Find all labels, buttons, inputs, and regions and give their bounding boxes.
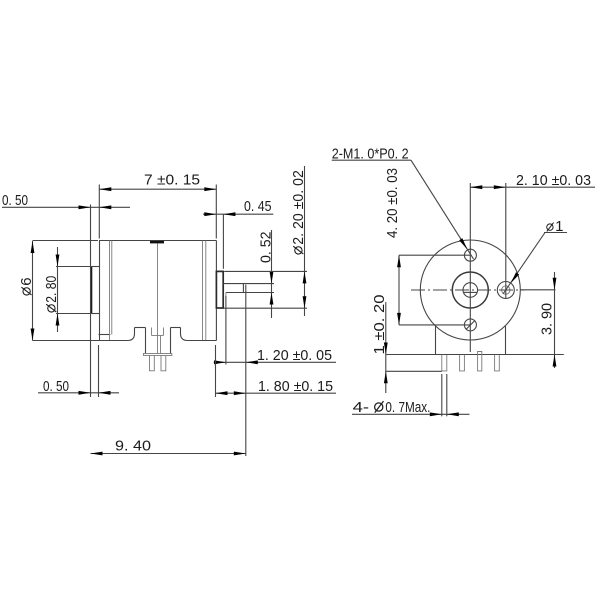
right end-cap face (215, 241, 217, 341)
pilot hole dia 1 (497, 282, 514, 299)
shaft circle (463, 283, 478, 298)
bottom screw hole thread mark (466, 321, 475, 330)
bottom screw hole (464, 319, 476, 331)
bracket right edge (505, 326, 507, 355)
pin left (side view) (150, 356, 155, 371)
block bottom lip (144, 354, 172, 356)
shaft boss (216, 271, 223, 308)
dim 3.90 (539, 303, 556, 335)
pin 4 front (495, 355, 500, 371)
svg-text:0. 50: 0. 50 (2, 192, 28, 209)
dim dia 6 (18, 277, 35, 295)
svg-text:4. 20 ±0. 03: 4. 20 ±0. 03 (384, 168, 401, 238)
bearing boss circle (452, 272, 488, 308)
top weld tab (150, 241, 164, 244)
flange right fillet (181, 328, 188, 341)
label dia 1 (547, 218, 564, 235)
label 4-dia 0.7 Max (353, 399, 431, 416)
cutout ceiling right (171, 327, 181, 329)
svg-text:0. 7Max.: 0. 7Max. (385, 399, 430, 416)
cutout ceiling left (135, 327, 146, 329)
bottom flange right (188, 340, 217, 342)
dim 0.52 (257, 232, 274, 264)
left cap bottom (99, 334, 111, 336)
pin 1 phantom extension (441, 374, 443, 416)
pin 3 front (478, 352, 482, 371)
bracket left edge (435, 326, 437, 355)
vertical centreline / extension (469, 183, 471, 352)
left end-cap face (99, 241, 101, 341)
svg-text:9. 40: 9. 40 (115, 437, 151, 454)
pin 1 front (442, 355, 447, 371)
body centre line (157, 243, 159, 353)
dim 1 +-0.20 (371, 295, 388, 355)
svg-text:7 ±0. 15: 7 ±0. 15 (144, 172, 200, 189)
motor body top edge (99, 240, 216, 242)
svg-text:0. 45: 0. 45 (244, 198, 272, 215)
shaft (223, 283, 274, 285)
pin 2 front (460, 355, 465, 371)
bottom flange left (33, 340, 128, 342)
svg-text:4-: 4- (353, 399, 370, 416)
svg-text:2. 10 ±0. 03: 2. 10 ±0. 03 (516, 172, 591, 189)
horizontal centreline (411, 289, 525, 291)
flange left fillet (128, 328, 135, 341)
right cap seam lines (202, 241, 204, 341)
svg-text:3. 90: 3. 90 (539, 303, 556, 335)
left cap seam lines (109, 241, 111, 341)
rear bump outline (90, 267, 92, 314)
dim 4.20 +-0.03 (384, 168, 401, 238)
bracket bottom / extension line (386, 354, 564, 356)
shaft root notch (225, 293, 227, 296)
motor body circle (420, 240, 520, 340)
svg-text:1. 80 ±0. 15: 1. 80 ±0. 15 (258, 378, 333, 395)
svg-text:1. 20 ±0. 05: 1. 20 ±0. 05 (257, 347, 332, 364)
dim dia 2.20 +-0.02 (290, 170, 307, 254)
pin right (side view) (161, 356, 166, 371)
connector block (145, 328, 147, 354)
dim dia 2.80 (43, 276, 60, 312)
top screw hole (464, 249, 476, 261)
shaft flat chord (463, 291, 477, 293)
